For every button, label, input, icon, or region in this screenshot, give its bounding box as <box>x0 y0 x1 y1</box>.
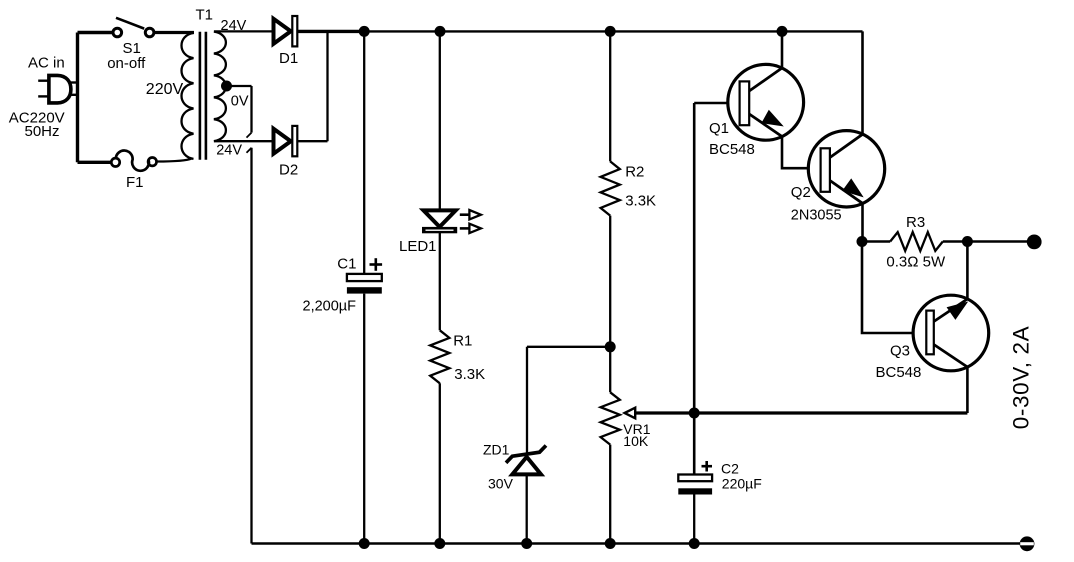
svg-text:BC548: BC548 <box>709 141 755 158</box>
svg-text:30V: 30V <box>488 476 514 492</box>
svg-text:D2: D2 <box>279 162 298 179</box>
svg-text:C1: C1 <box>337 256 356 273</box>
svg-text:R2: R2 <box>625 163 644 180</box>
svg-text:R3: R3 <box>906 214 925 231</box>
svg-text:24V: 24V <box>221 18 247 34</box>
svg-text:AC in: AC in <box>28 55 65 72</box>
svg-text:220V: 220V <box>146 81 184 98</box>
svg-text:2N3055: 2N3055 <box>791 208 842 224</box>
svg-text:Q1: Q1 <box>709 120 729 137</box>
svg-text:50Hz: 50Hz <box>25 123 60 140</box>
svg-text:220µF: 220µF <box>722 476 762 492</box>
svg-text:Q2: Q2 <box>791 184 811 201</box>
svg-text:C2: C2 <box>721 461 739 477</box>
svg-text:LED1: LED1 <box>399 238 437 255</box>
svg-text:3.3K: 3.3K <box>625 192 656 209</box>
svg-text:0-30V, 2A: 0-30V, 2A <box>1008 326 1033 429</box>
svg-text:2,200µF: 2,200µF <box>303 299 357 315</box>
svg-text:Q3: Q3 <box>890 343 910 360</box>
svg-text:D1: D1 <box>279 50 298 67</box>
svg-text:3.3K: 3.3K <box>454 366 485 383</box>
svg-text:T1: T1 <box>196 6 214 23</box>
svg-text:on-off: on-off <box>107 55 146 72</box>
svg-text:24V: 24V <box>216 143 242 159</box>
svg-text:0.3Ω 5W: 0.3Ω 5W <box>886 254 946 271</box>
svg-text:BC548: BC548 <box>876 364 922 381</box>
svg-text:F1: F1 <box>126 174 144 191</box>
svg-text:R1: R1 <box>453 332 472 349</box>
svg-text:10K: 10K <box>623 433 649 449</box>
svg-text:ZD1: ZD1 <box>483 442 510 458</box>
svg-text:0V: 0V <box>231 94 249 110</box>
